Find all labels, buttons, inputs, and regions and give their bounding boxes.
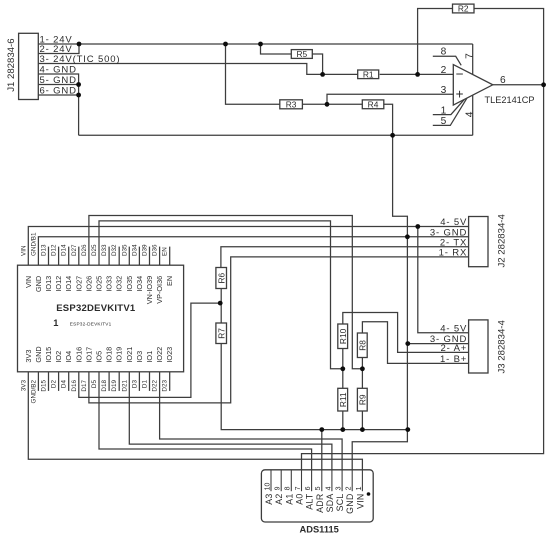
- svg-text:IO33: IO33: [105, 276, 114, 292]
- svg-text:IO3: IO3: [135, 351, 144, 363]
- svg-text:R6: R6: [216, 273, 226, 284]
- svg-text:IO35: IO35: [125, 276, 134, 292]
- svg-text:R10: R10: [338, 328, 348, 344]
- svg-text:3: 3: [336, 486, 343, 490]
- svg-text:VP-OI36: VP-OI36: [155, 276, 164, 304]
- svg-text:3V3: 3V3: [24, 350, 33, 363]
- svg-text:D26: D26: [81, 244, 88, 256]
- svg-text:IO25: IO25: [95, 276, 104, 292]
- svg-text:SDA: SDA: [325, 493, 335, 512]
- svg-text:IO22: IO22: [155, 347, 164, 363]
- svg-text:D33: D33: [101, 244, 108, 256]
- svg-text:A0: A0: [295, 493, 305, 504]
- svg-text:2: 2: [441, 65, 447, 76]
- svg-text:IO2: IO2: [54, 351, 63, 363]
- svg-text:IO4: IO4: [64, 351, 73, 363]
- svg-text:TLE2141CP: TLE2141CP: [485, 95, 535, 105]
- svg-text:D22: D22: [152, 380, 159, 392]
- svg-text:VIN: VIN: [20, 245, 27, 256]
- svg-text:3- 24V(TIC 500): 3- 24V(TIC 500): [40, 54, 121, 65]
- svg-text:R11: R11: [338, 392, 348, 407]
- svg-text:R5: R5: [296, 49, 307, 59]
- svg-text:ALT: ALT: [305, 493, 315, 510]
- svg-text:A1: A1: [284, 493, 294, 504]
- svg-text:IO26: IO26: [84, 276, 93, 292]
- svg-text:3: 3: [441, 85, 447, 96]
- svg-text:6: 6: [500, 75, 506, 86]
- svg-text:D19: D19: [111, 380, 118, 392]
- svg-text:VN-IO39: VN-IO39: [145, 276, 154, 304]
- svg-text:J1 282834-6: J1 282834-6: [6, 38, 17, 91]
- svg-text:R1: R1: [363, 70, 374, 80]
- svg-text:8: 8: [285, 486, 292, 490]
- svg-text:GND: GND: [34, 346, 43, 362]
- svg-text:6- GND: 6- GND: [40, 86, 77, 97]
- svg-text:1: 1: [441, 105, 447, 116]
- svg-text:10: 10: [264, 483, 271, 491]
- svg-text:+: +: [456, 87, 464, 102]
- svg-text:IO16: IO16: [74, 347, 83, 363]
- svg-text:R3: R3: [286, 100, 297, 110]
- svg-text:D4: D4: [61, 380, 68, 389]
- svg-text:2: 2: [346, 486, 353, 490]
- svg-text:IO1: IO1: [145, 351, 154, 363]
- svg-text:D13: D13: [41, 244, 48, 256]
- svg-text:IO17: IO17: [84, 347, 93, 363]
- svg-text:8: 8: [441, 46, 447, 57]
- svg-text:7: 7: [295, 486, 302, 490]
- svg-text:D14: D14: [61, 244, 68, 256]
- svg-text:IO19: IO19: [115, 347, 124, 363]
- svg-text:3V3: 3V3: [20, 380, 27, 392]
- svg-text:IO15: IO15: [44, 347, 53, 363]
- svg-text:D16: D16: [71, 380, 78, 392]
- svg-text:D27: D27: [71, 244, 78, 256]
- svg-text:IO13: IO13: [44, 276, 53, 292]
- svg-text:VIN: VIN: [24, 276, 33, 288]
- svg-text:D35: D35: [121, 244, 128, 256]
- svg-text:5- GND: 5- GND: [40, 75, 77, 86]
- svg-text:IO18: IO18: [105, 347, 114, 363]
- svg-text:R4: R4: [368, 100, 379, 110]
- svg-text:ADR: ADR: [315, 493, 325, 512]
- svg-text:ESP32DEVKITV1: ESP32DEVKITV1: [56, 303, 136, 314]
- svg-text:D36: D36: [152, 244, 159, 256]
- svg-text:GND/B2: GND/B2: [30, 380, 37, 404]
- svg-text:A2: A2: [274, 493, 284, 504]
- svg-text:IO34: IO34: [135, 276, 144, 292]
- svg-text:IO27: IO27: [74, 276, 83, 292]
- svg-text:4: 4: [464, 111, 475, 117]
- svg-text:D32: D32: [111, 244, 118, 256]
- svg-text:D12: D12: [51, 244, 58, 256]
- svg-text:IO5: IO5: [95, 351, 104, 363]
- svg-text:ADS1115: ADS1115: [300, 525, 339, 535]
- svg-text:IO21: IO21: [125, 347, 134, 363]
- svg-text:D2: D2: [51, 380, 58, 389]
- svg-text:4- 5V: 4- 5V: [440, 323, 467, 334]
- svg-text:D15: D15: [41, 380, 48, 392]
- svg-text:D18: D18: [101, 380, 108, 392]
- svg-text:IO12: IO12: [54, 276, 63, 292]
- svg-text:D23: D23: [162, 380, 169, 392]
- svg-text:R7: R7: [216, 328, 226, 339]
- svg-text:R8: R8: [357, 340, 367, 351]
- svg-text:1- RX: 1- RX: [439, 248, 468, 259]
- svg-text:R9: R9: [357, 394, 367, 405]
- svg-text:SCL: SCL: [335, 493, 345, 511]
- svg-text:1: 1: [356, 486, 363, 490]
- svg-text:GND: GND: [34, 276, 43, 292]
- svg-text:ESP32-DEVKITV1: ESP32-DEVKITV1: [70, 322, 112, 327]
- svg-text:D39: D39: [142, 244, 149, 256]
- svg-text:5: 5: [315, 486, 322, 490]
- svg-text:D1: D1: [142, 380, 149, 389]
- svg-text:J2 282834-4: J2 282834-4: [496, 213, 507, 267]
- svg-text:2- A+: 2- A+: [440, 343, 467, 354]
- svg-text:9: 9: [275, 486, 282, 490]
- svg-text:D3: D3: [131, 380, 138, 389]
- svg-text:7: 7: [464, 53, 475, 59]
- svg-text:5: 5: [441, 116, 447, 127]
- svg-text:EN: EN: [162, 247, 169, 256]
- svg-text:D25: D25: [91, 244, 98, 256]
- svg-text:IO14: IO14: [64, 276, 73, 292]
- svg-text:IO23: IO23: [165, 347, 174, 363]
- svg-text:1: 1: [53, 318, 58, 328]
- svg-text:D5: D5: [91, 380, 98, 389]
- svg-text:A3: A3: [264, 493, 274, 504]
- svg-text:−: −: [456, 67, 464, 82]
- svg-text:GND: GND: [345, 493, 355, 513]
- svg-text:4: 4: [325, 486, 332, 490]
- svg-text:J3 282834-4: J3 282834-4: [496, 319, 507, 373]
- svg-text:R2: R2: [458, 4, 469, 14]
- svg-text:IO32: IO32: [115, 276, 124, 292]
- svg-text:D34: D34: [131, 244, 138, 256]
- svg-text:4- GND: 4- GND: [40, 65, 77, 76]
- svg-text:1- B+: 1- B+: [440, 354, 467, 365]
- svg-text:D21: D21: [121, 380, 128, 392]
- svg-text:EN: EN: [165, 276, 174, 286]
- svg-text:VIN: VIN: [355, 493, 365, 509]
- svg-text:6: 6: [305, 486, 312, 490]
- svg-text:D17: D17: [81, 380, 88, 392]
- svg-text:GND/B1: GND/B1: [30, 232, 37, 256]
